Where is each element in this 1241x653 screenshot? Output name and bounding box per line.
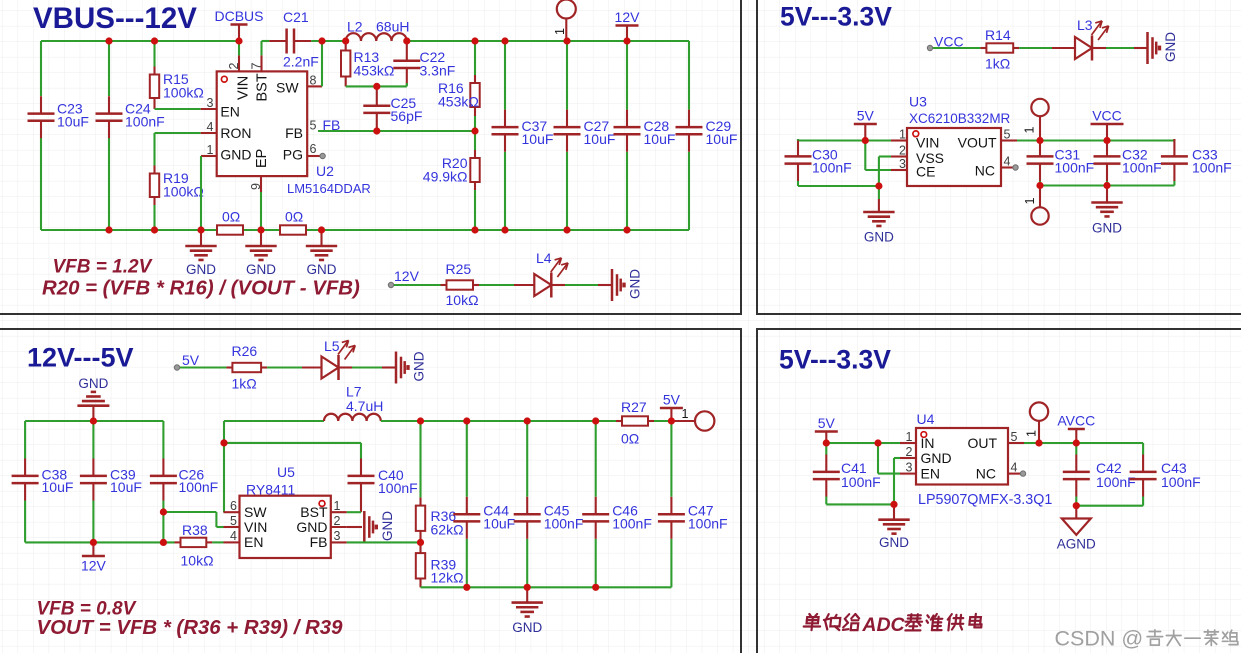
wire bbox=[212, 541, 223, 543]
svg-text:GND: GND bbox=[380, 511, 395, 541]
svg-text:100nF: 100nF bbox=[1096, 474, 1136, 490]
svg-text:DCBUS: DCBUS bbox=[214, 8, 263, 24]
svg-text:R27: R27 bbox=[621, 399, 647, 415]
junction bbox=[90, 417, 97, 424]
connector pin 1 bbox=[1023, 186, 1049, 225]
junction bbox=[257, 226, 264, 233]
svg-text:RON: RON bbox=[220, 125, 251, 141]
junction bbox=[890, 501, 897, 508]
ground bbox=[863, 199, 894, 245]
svg-text:5: 5 bbox=[230, 514, 237, 528]
svg-text:R25: R25 bbox=[446, 261, 472, 277]
junction bbox=[197, 226, 204, 233]
annotation chinese bbox=[803, 614, 982, 636]
resistor R39 bbox=[416, 542, 464, 587]
power port 5V bbox=[815, 415, 838, 443]
wire bbox=[40, 41, 42, 96]
svg-text:9: 9 bbox=[249, 183, 263, 190]
junction bbox=[1035, 439, 1042, 446]
svg-text:100nF: 100nF bbox=[179, 479, 219, 495]
ground bbox=[512, 587, 543, 635]
wire bbox=[566, 152, 568, 230]
svg-text:LP5907QMFX-3.3Q1: LP5907QMFX-3.3Q1 bbox=[918, 492, 1052, 508]
junction bbox=[151, 37, 158, 44]
svg-text:VBUS---12V: VBUS---12V bbox=[33, 2, 197, 35]
wire bbox=[224, 442, 361, 444]
svg-text:1kΩ: 1kΩ bbox=[232, 376, 257, 392]
svg-text:4: 4 bbox=[230, 529, 237, 543]
svg-text:1: 1 bbox=[899, 128, 906, 142]
svg-text:U5: U5 bbox=[277, 464, 295, 480]
svg-text:100nF: 100nF bbox=[1161, 474, 1201, 490]
svg-text:PG: PG bbox=[283, 147, 303, 163]
U5 pin numbers bbox=[230, 499, 340, 543]
junction bbox=[563, 37, 570, 44]
svg-text:AGND: AGND bbox=[1057, 537, 1096, 552]
junction bbox=[1103, 137, 1110, 144]
svg-text:12V: 12V bbox=[615, 9, 641, 25]
capacitor C38 bbox=[12, 459, 74, 501]
svg-text:AVCC: AVCC bbox=[1057, 413, 1095, 429]
wire bbox=[24, 421, 26, 459]
svg-text:12V---5V: 12V---5V bbox=[27, 343, 134, 373]
svg-text:5V---3.3V: 5V---3.3V bbox=[779, 345, 891, 375]
op-amp U5 RY8411 bbox=[224, 496, 347, 558]
wire bbox=[474, 190, 476, 230]
wire bbox=[162, 501, 164, 513]
wire bbox=[92, 501, 94, 543]
junction bbox=[501, 226, 508, 233]
svg-text:100nF: 100nF bbox=[841, 474, 881, 490]
power port 5V bbox=[660, 392, 683, 422]
svg-text:10kΩ: 10kΩ bbox=[181, 553, 214, 569]
svg-text:0Ω: 0Ω bbox=[621, 431, 639, 447]
svg-text:5: 5 bbox=[1004, 128, 1011, 142]
svg-text:IN: IN bbox=[921, 435, 935, 451]
svg-text:3: 3 bbox=[899, 157, 906, 171]
wire bbox=[878, 186, 880, 199]
wire bbox=[504, 152, 506, 230]
wire bbox=[108, 41, 110, 96]
svg-text:FB: FB bbox=[323, 117, 341, 133]
svg-text:2: 2 bbox=[906, 445, 913, 459]
svg-text:1: 1 bbox=[1023, 198, 1037, 205]
wire bbox=[595, 421, 597, 497]
svg-text:4: 4 bbox=[207, 120, 214, 134]
svg-text:8: 8 bbox=[310, 74, 317, 88]
svg-text:0Ω: 0Ω bbox=[285, 209, 303, 225]
resistor R36 bbox=[416, 498, 464, 543]
wire bbox=[360, 443, 362, 459]
svg-text:GND: GND bbox=[628, 269, 643, 299]
wire bbox=[504, 41, 506, 110]
resistor R26 bbox=[226, 343, 267, 392]
svg-text:68uH: 68uH bbox=[376, 19, 409, 35]
wire bbox=[25, 420, 163, 422]
wire bbox=[1024, 442, 1143, 444]
svg-text:GND: GND bbox=[1163, 32, 1178, 62]
wire bbox=[474, 41, 476, 75]
capacitor C45 bbox=[514, 497, 584, 539]
svg-text:BST: BST bbox=[255, 73, 271, 101]
svg-text:1: 1 bbox=[207, 143, 214, 157]
svg-text:GND: GND bbox=[296, 519, 327, 535]
capacitor C26 bbox=[150, 459, 218, 501]
connector pin 1 bbox=[1023, 99, 1049, 141]
svg-text:4.7uH: 4.7uH bbox=[346, 398, 383, 414]
wire bbox=[162, 512, 164, 542]
svg-text:100nF: 100nF bbox=[1192, 160, 1232, 176]
capacitor C22 bbox=[393, 43, 455, 85]
ground bbox=[612, 269, 643, 301]
power port GND bbox=[77, 376, 109, 421]
junction bbox=[874, 439, 881, 446]
svg-text:5V: 5V bbox=[182, 352, 200, 368]
svg-text:49.9kΩ: 49.9kΩ bbox=[423, 169, 468, 185]
svg-text:100kΩ: 100kΩ bbox=[163, 184, 204, 200]
svg-text:R38: R38 bbox=[182, 522, 208, 538]
svg-text:FB: FB bbox=[285, 125, 303, 141]
svg-text:GND: GND bbox=[864, 230, 894, 245]
inductor L7 bbox=[324, 384, 383, 422]
junction bbox=[623, 37, 630, 44]
svg-text:1: 1 bbox=[906, 430, 913, 444]
watermark bbox=[1055, 627, 1238, 651]
wire bbox=[879, 155, 891, 157]
op-amp U3 XC6210B332MR bbox=[891, 128, 1018, 186]
junction bbox=[417, 417, 424, 424]
wire bbox=[155, 132, 201, 134]
svg-text:4: 4 bbox=[1004, 155, 1011, 169]
svg-text:FB: FB bbox=[310, 534, 328, 550]
svg-text:VIN: VIN bbox=[916, 134, 939, 150]
svg-text:L4: L4 bbox=[536, 250, 552, 266]
wire bbox=[347, 511, 361, 513]
svg-text:100nF: 100nF bbox=[1122, 160, 1162, 176]
svg-text:GND: GND bbox=[412, 351, 427, 381]
junction bbox=[318, 226, 325, 233]
wire bbox=[260, 192, 262, 230]
wire bbox=[394, 284, 441, 286]
svg-text:3.3nF: 3.3nF bbox=[420, 63, 456, 79]
wire bbox=[933, 47, 980, 49]
junction bbox=[105, 226, 112, 233]
wire bbox=[223, 421, 225, 512]
capacitor C44 bbox=[453, 497, 515, 539]
power port AVCC bbox=[1057, 413, 1095, 444]
svg-text:VCC: VCC bbox=[1092, 108, 1122, 124]
wire bbox=[262, 40, 270, 42]
junction bbox=[318, 37, 325, 44]
ground bbox=[878, 504, 909, 550]
junction bbox=[403, 37, 410, 44]
capacitor C23 bbox=[28, 96, 89, 138]
wire bbox=[381, 420, 616, 422]
svg-text:U4: U4 bbox=[917, 411, 935, 427]
wire bbox=[267, 366, 321, 368]
LED L4 bbox=[534, 250, 568, 298]
power port 5V bbox=[854, 108, 877, 141]
power port VCC bbox=[1091, 108, 1124, 141]
svg-text:SW: SW bbox=[244, 504, 267, 520]
wire bbox=[306, 229, 689, 231]
wire bbox=[1092, 47, 1148, 49]
U3 pin names bbox=[916, 134, 997, 179]
junction bbox=[524, 584, 531, 591]
resistor R16 bbox=[438, 75, 480, 116]
resistor R38 bbox=[175, 522, 214, 569]
resistor 0Ω bbox=[217, 209, 243, 235]
junction bbox=[563, 226, 570, 233]
ground bbox=[396, 351, 427, 383]
inductor L2 bbox=[346, 19, 410, 42]
junction bbox=[823, 439, 830, 446]
wire bbox=[406, 83, 408, 86]
capacitor C24 bbox=[96, 96, 165, 138]
wire bbox=[407, 40, 689, 42]
wire bbox=[162, 421, 164, 459]
wire bbox=[419, 421, 421, 498]
svg-text:0Ω: 0Ω bbox=[222, 209, 240, 225]
wire bbox=[421, 586, 672, 588]
svg-text:LM5164DDAR: LM5164DDAR bbox=[287, 181, 371, 196]
wire bbox=[864, 141, 866, 171]
wire bbox=[466, 421, 468, 497]
svg-text:BST: BST bbox=[300, 504, 328, 520]
wire bbox=[825, 497, 827, 505]
wire bbox=[797, 139, 799, 141]
svg-text:10uF: 10uF bbox=[57, 114, 89, 130]
wire bbox=[153, 205, 155, 230]
wire bbox=[466, 539, 468, 588]
wire bbox=[1075, 443, 1077, 455]
capacitor C37 bbox=[492, 110, 554, 152]
wire bbox=[797, 181, 799, 186]
svg-text:VOUT: VOUT bbox=[958, 134, 997, 150]
junction bbox=[1073, 439, 1080, 446]
U2 pin numbers bbox=[207, 63, 317, 191]
svg-text:10uF: 10uF bbox=[706, 131, 738, 147]
svg-text:GND: GND bbox=[246, 262, 276, 277]
junction bbox=[235, 37, 242, 44]
junction bbox=[417, 539, 424, 546]
svg-text:U3: U3 bbox=[909, 94, 927, 110]
wire bbox=[153, 133, 155, 166]
op-amp U2 LM5164DDAR bbox=[201, 55, 371, 230]
resistor R27 bbox=[616, 399, 654, 447]
capacitor C31 bbox=[1027, 139, 1095, 181]
wire bbox=[215, 512, 217, 527]
wire bbox=[347, 541, 421, 543]
wire bbox=[670, 539, 672, 588]
wire bbox=[826, 442, 900, 444]
svg-text:5V: 5V bbox=[818, 415, 836, 431]
capacitor C25 bbox=[363, 88, 422, 130]
wire bbox=[346, 85, 407, 87]
wire bbox=[526, 539, 528, 588]
svg-text:1: 1 bbox=[682, 407, 689, 421]
svg-text:100nF: 100nF bbox=[378, 480, 418, 496]
wire bbox=[826, 503, 894, 505]
capacitor C43 bbox=[1130, 455, 1201, 497]
svg-text:1kΩ: 1kΩ bbox=[985, 56, 1010, 72]
net label 12V bbox=[388, 282, 393, 287]
junction bbox=[1103, 182, 1110, 189]
svg-text:R14: R14 bbox=[985, 27, 1011, 43]
svg-text:3: 3 bbox=[906, 461, 913, 475]
svg-text:EP: EP bbox=[254, 149, 270, 168]
wire bbox=[200, 156, 202, 230]
U2 pin names bbox=[220, 73, 303, 168]
svg-text:L5: L5 bbox=[324, 338, 340, 354]
capacitor C32 bbox=[1094, 139, 1162, 181]
resistor 0Ω bbox=[280, 209, 306, 235]
svg-text:U2: U2 bbox=[316, 163, 334, 179]
svg-text:1: 1 bbox=[553, 28, 567, 35]
svg-text:12V: 12V bbox=[81, 558, 107, 574]
svg-text:100nF: 100nF bbox=[612, 516, 652, 532]
svg-text:OUT: OUT bbox=[967, 435, 997, 451]
svg-text:VFB = 1.2V: VFB = 1.2V bbox=[53, 257, 153, 278]
svg-text:12kΩ: 12kΩ bbox=[431, 570, 464, 586]
wire bbox=[865, 169, 891, 171]
junction bbox=[160, 508, 167, 515]
svg-text:6: 6 bbox=[310, 142, 317, 156]
svg-text:4: 4 bbox=[1011, 461, 1018, 475]
svg-text:CE: CE bbox=[916, 164, 935, 180]
wire bbox=[825, 443, 827, 455]
junction bbox=[463, 417, 470, 424]
junction bbox=[90, 539, 97, 546]
junction bbox=[524, 417, 531, 424]
wire bbox=[318, 130, 475, 132]
wire bbox=[153, 41, 155, 67]
svg-text:2: 2 bbox=[227, 63, 241, 70]
wire bbox=[155, 108, 201, 110]
ground bbox=[245, 230, 276, 277]
junction bbox=[373, 83, 380, 90]
capacitor C33 bbox=[1161, 139, 1232, 181]
LED L3 bbox=[1075, 17, 1109, 61]
svg-text:2: 2 bbox=[334, 514, 341, 528]
capacitor C27 bbox=[554, 110, 616, 152]
junction bbox=[471, 37, 478, 44]
wire bbox=[894, 457, 900, 459]
svg-text:VOUT = VFB * (R36 + R39) / R39: VOUT = VFB * (R36 + R39) / R39 bbox=[37, 617, 344, 639]
svg-text:EN: EN bbox=[244, 534, 263, 550]
svg-text:5: 5 bbox=[310, 119, 317, 133]
svg-text:GND: GND bbox=[78, 376, 108, 391]
wire bbox=[1106, 181, 1108, 186]
wire bbox=[163, 511, 216, 513]
svg-text:1: 1 bbox=[1023, 127, 1037, 134]
capacitor C29 bbox=[676, 110, 738, 152]
wire bbox=[41, 229, 217, 231]
power port 12V bbox=[615, 9, 641, 41]
junction bbox=[463, 584, 470, 591]
wire bbox=[595, 539, 597, 588]
op-amp U4 LP5907QMFX-3.3Q1 bbox=[900, 428, 1026, 485]
svg-text:7: 7 bbox=[249, 63, 263, 70]
svg-text:R26: R26 bbox=[232, 343, 258, 359]
wire bbox=[260, 41, 262, 55]
svg-text:GND: GND bbox=[921, 450, 952, 466]
wire bbox=[1173, 139, 1175, 141]
svg-text:XC6210B332MR: XC6210B332MR bbox=[909, 111, 1011, 126]
svg-text:EN: EN bbox=[921, 465, 940, 481]
U5 pin names bbox=[244, 504, 328, 550]
junction bbox=[373, 127, 380, 134]
junction bbox=[342, 37, 349, 44]
junction bbox=[151, 226, 158, 233]
U4 pin numbers bbox=[906, 430, 1018, 475]
ground bbox=[1091, 186, 1122, 236]
junction bbox=[220, 439, 227, 446]
junction bbox=[862, 137, 869, 144]
capacitor C28 bbox=[614, 110, 676, 152]
svg-text:GND: GND bbox=[512, 620, 542, 635]
wire bbox=[321, 41, 323, 86]
wire bbox=[654, 420, 671, 422]
connector pin 1 bbox=[682, 407, 715, 431]
capacitor C47 bbox=[658, 497, 728, 539]
capacitor C41 bbox=[813, 455, 881, 497]
U3 pin numbers bbox=[899, 128, 1010, 172]
svg-text:100nF: 100nF bbox=[688, 516, 728, 532]
wire bbox=[25, 541, 174, 543]
svg-text:NC: NC bbox=[975, 163, 995, 179]
resistor R14 bbox=[980, 27, 1019, 72]
wire bbox=[479, 284, 534, 286]
junction bbox=[471, 226, 478, 233]
wire bbox=[1039, 141, 1041, 143]
svg-text:10uF: 10uF bbox=[522, 131, 554, 147]
wire bbox=[339, 366, 397, 368]
wire bbox=[92, 421, 94, 459]
wire bbox=[238, 41, 240, 55]
svg-text:L2: L2 bbox=[347, 19, 363, 35]
wire bbox=[41, 40, 239, 42]
wire bbox=[878, 157, 880, 187]
svg-text:10uF: 10uF bbox=[110, 479, 142, 495]
ground AGND bbox=[1057, 506, 1096, 552]
svg-text:3: 3 bbox=[207, 96, 214, 110]
junction bbox=[592, 584, 599, 591]
wire bbox=[40, 138, 42, 230]
svg-text:6: 6 bbox=[230, 499, 237, 513]
junction bbox=[668, 417, 675, 424]
wire bbox=[1019, 47, 1075, 49]
wire bbox=[1142, 497, 1144, 506]
wire bbox=[670, 421, 672, 497]
connector pin 1 bbox=[553, 0, 576, 41]
wire bbox=[243, 229, 280, 231]
svg-text:2.2nF: 2.2nF bbox=[283, 54, 319, 70]
junction bbox=[1036, 182, 1043, 189]
svg-text:VIN: VIN bbox=[236, 76, 252, 100]
ground bbox=[364, 511, 395, 543]
svg-text:VIN: VIN bbox=[244, 519, 267, 535]
svg-text:453kΩ: 453kΩ bbox=[354, 63, 395, 79]
svg-text:C21: C21 bbox=[283, 9, 309, 25]
wire bbox=[180, 366, 226, 368]
power port 12V bbox=[81, 542, 107, 573]
wire bbox=[893, 458, 895, 504]
svg-text:SW: SW bbox=[276, 79, 299, 95]
junction bbox=[105, 37, 112, 44]
wire bbox=[376, 129, 378, 132]
resistor R15 bbox=[150, 67, 204, 110]
